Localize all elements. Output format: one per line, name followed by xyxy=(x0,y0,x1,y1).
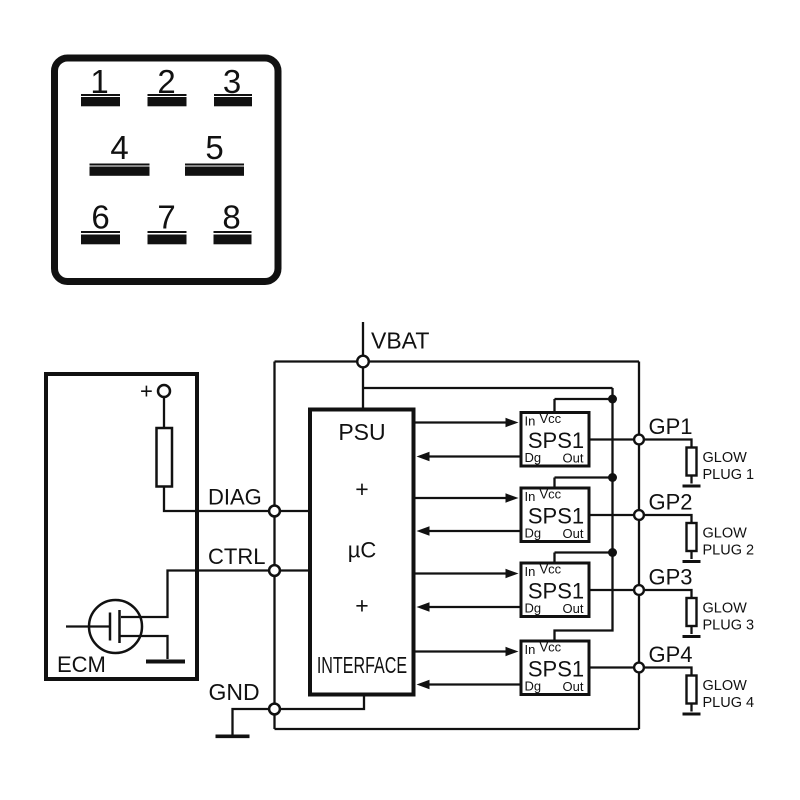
wire DIAG xyxy=(164,487,309,512)
pin 6 xyxy=(81,199,120,245)
svg-text:GLOW: GLOW xyxy=(703,450,748,466)
svg-text:GND: GND xyxy=(209,679,260,705)
terminal circle xyxy=(158,385,170,397)
ground (plug 1) xyxy=(683,485,701,488)
svg-text:Vcc: Vcc xyxy=(540,411,562,426)
wire In 2 (uC to SPS2) xyxy=(416,493,519,502)
ECM block xyxy=(46,374,197,679)
resistor R1 (pull-up) xyxy=(157,428,173,487)
wire Out 4 to GP4 xyxy=(591,668,692,676)
svg-text:PLUG 1: PLUG 1 xyxy=(703,467,755,483)
node GP4 xyxy=(634,663,644,673)
wire top rail xyxy=(275,360,640,362)
pin 7 xyxy=(148,199,187,245)
wire plug 4 to ground xyxy=(690,704,692,712)
node GP1 xyxy=(634,435,644,445)
svg-text:7: 7 xyxy=(157,199,175,236)
connector outline xyxy=(55,58,279,282)
svg-text:+: + xyxy=(355,593,368,619)
wire Vcc chain xyxy=(555,388,613,641)
svg-text:GP2: GP2 xyxy=(649,490,693,515)
wire Vcc stub SPS2 xyxy=(555,478,613,489)
svg-text:5: 5 xyxy=(205,129,223,166)
svg-text:VBAT: VBAT xyxy=(371,328,429,354)
svg-text:GLOW: GLOW xyxy=(703,678,748,694)
wire Out 3 to GP3 xyxy=(591,590,692,598)
svg-text:4: 4 xyxy=(110,129,128,166)
svg-text:CTRL: CTRL xyxy=(208,544,265,569)
resistor glow plug 2 xyxy=(687,523,697,551)
svg-text:In: In xyxy=(525,642,536,657)
wire CTRL xyxy=(121,571,309,618)
wire source to ground xyxy=(120,636,168,659)
ground (GND terminal) xyxy=(216,734,250,738)
svg-text:In: In xyxy=(525,414,536,429)
svg-text:PLUG 2: PLUG 2 xyxy=(703,543,755,559)
resistor glow plug 4 xyxy=(687,676,697,704)
svg-text:Vcc: Vcc xyxy=(540,562,562,577)
svg-text:INTERFACE: INTERFACE xyxy=(317,653,407,678)
pin 5 xyxy=(185,129,244,176)
svg-text:PSU: PSU xyxy=(338,419,385,445)
microcontroller block U1 xyxy=(310,410,414,695)
label GLOW PLUG 2 xyxy=(703,526,755,559)
wire bottom rail xyxy=(275,728,640,730)
wire Vcc rail xyxy=(363,387,613,389)
svg-text:Vcc: Vcc xyxy=(540,640,562,655)
wire terminal to resistor xyxy=(163,397,165,429)
svg-text:Out: Out xyxy=(563,679,584,694)
node GP3 xyxy=(634,585,644,595)
svg-text:Out: Out xyxy=(563,526,584,541)
node VBAT xyxy=(357,356,369,368)
svg-text:GP3: GP3 xyxy=(649,565,693,590)
svg-text:ECM: ECM xyxy=(57,652,106,677)
svg-text:GLOW: GLOW xyxy=(703,526,748,542)
transistor Q1 (ECM low-side driver) xyxy=(66,600,142,653)
pin 8 xyxy=(214,199,252,245)
label GLOW PLUG 1 xyxy=(703,450,755,483)
junction dot 1 xyxy=(608,395,617,404)
wire Out 2 to GP2 xyxy=(591,515,692,523)
wire plug 2 to ground xyxy=(690,551,692,559)
label GLOW PLUG 4 xyxy=(703,678,755,711)
wire GND to interface xyxy=(275,697,365,710)
IC SPS1 (channel 1) xyxy=(521,411,589,466)
wire Dg 1 (SPS1 to uC) xyxy=(417,452,520,461)
svg-text:DIAG: DIAG xyxy=(208,485,262,510)
wire Dg 3 (SPS3 to uC) xyxy=(417,602,520,611)
wire plug 3 to ground xyxy=(690,626,692,634)
label GLOW PLUG 3 xyxy=(703,601,755,634)
pin 2 xyxy=(148,63,187,106)
IC SPS1 (channel 3) xyxy=(521,562,589,617)
pin 4 xyxy=(90,129,150,176)
svg-text:+: + xyxy=(355,476,368,502)
node GND xyxy=(269,704,280,715)
wire left bus xyxy=(273,362,275,730)
svg-text:Out: Out xyxy=(563,451,584,466)
svg-text:GP1: GP1 xyxy=(649,414,693,439)
svg-text:GLOW: GLOW xyxy=(703,601,748,617)
svg-text:Out: Out xyxy=(563,601,584,616)
junction dot 3 xyxy=(608,548,617,557)
svg-text:In: In xyxy=(525,564,536,579)
svg-text:Vcc: Vcc xyxy=(540,487,562,502)
pin 1 xyxy=(81,63,120,106)
svg-text:+: + xyxy=(140,379,153,404)
wire VBAT stub xyxy=(362,322,364,408)
svg-text:Dg: Dg xyxy=(525,601,542,616)
wire Out 1 to GP1 xyxy=(591,440,692,448)
svg-text:6: 6 xyxy=(91,199,109,236)
resistor glow plug 1 xyxy=(687,448,697,476)
wire In 1 (uC to SPS1) xyxy=(416,418,519,427)
svg-text:Dg: Dg xyxy=(525,679,542,694)
wire Dg 4 (SPS4 to uC) xyxy=(417,680,520,689)
svg-text:PLUG 3: PLUG 3 xyxy=(703,618,755,634)
wire In 4 (uC to SPS4) xyxy=(416,647,519,656)
IC SPS1 (channel 2) xyxy=(521,487,589,542)
ground (plug 2) xyxy=(683,560,701,563)
ground (plug 3) xyxy=(683,635,701,638)
resistor glow plug 3 xyxy=(687,598,697,626)
wire plug 1 to ground xyxy=(690,476,692,484)
IC SPS1 (channel 4) xyxy=(521,640,589,695)
ground (ECM) xyxy=(146,660,185,664)
junction dot 2 xyxy=(608,473,617,482)
ground (plug 4) xyxy=(683,713,701,716)
svg-text:µC: µC xyxy=(348,538,377,563)
svg-text:In: In xyxy=(525,489,536,504)
svg-text:Dg: Dg xyxy=(525,450,542,465)
node CTRL xyxy=(269,565,280,576)
svg-text:GP4: GP4 xyxy=(649,642,693,667)
pin 3 xyxy=(214,63,252,106)
wire GND to ground xyxy=(233,709,275,735)
svg-text:Dg: Dg xyxy=(525,526,542,541)
wire In 3 (uC to SPS3) xyxy=(416,569,519,578)
wire right rail xyxy=(638,362,640,730)
node GP2 xyxy=(634,510,644,520)
svg-text:PLUG 4: PLUG 4 xyxy=(703,695,755,711)
wire Dg 2 (SPS2 to uC) xyxy=(417,526,520,535)
wire Vcc stub SPS1 xyxy=(555,399,613,413)
node DIAG xyxy=(269,506,280,517)
svg-text:8: 8 xyxy=(222,199,240,236)
wire Vcc stub SPS3 xyxy=(555,553,613,564)
